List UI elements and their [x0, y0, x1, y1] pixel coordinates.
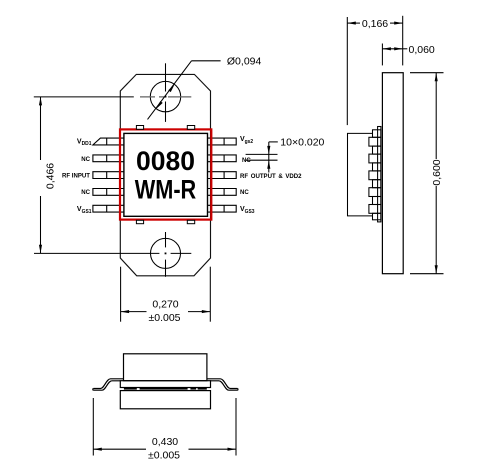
dimension 0,166	[347, 16, 402, 125]
bottom hole horizontal centerline right	[171, 252, 192, 254]
0,600 dim line lower segment	[435, 186, 437, 274]
0,060 dim line	[382, 48, 402, 50]
0,466 top extension line	[34, 96, 134, 98]
lead strip	[378, 127, 381, 222]
lead stub narrow 3	[373, 180, 381, 188]
leader horizontal to text	[269, 141, 278, 143]
lead stub row4 wide	[369, 188, 381, 197]
base rectangle	[120, 391, 210, 409]
10x0.020 down arrow	[267, 146, 270, 155]
0,060 left arrow	[382, 47, 391, 50]
lead stub narrow top	[373, 130, 381, 138]
svg-text:NC: NC	[240, 189, 249, 196]
index tab top-left	[136, 126, 143, 130]
0,466 top arrow	[39, 97, 42, 106]
bottom hole horizontal centerline left	[34, 252, 159, 254]
lead bracket outline	[348, 133, 373, 216]
top hole vertical centerline upper	[165, 63, 167, 91]
dimension 10x0.020	[246, 142, 278, 173]
0,466 bottom arrow	[39, 245, 42, 254]
left pins	[93, 138, 236, 212]
0,166 right extension line	[402, 16, 404, 66]
0,600 bottom arrow	[435, 265, 438, 274]
bottom hole vertical centerline upper	[165, 232, 167, 247]
pin 5 right (VGS3)	[208, 205, 237, 212]
bottom hole center dot	[165, 253, 167, 255]
svg-text:0,166: 0,166	[362, 18, 388, 30]
svg-text:0080: 0080	[136, 146, 195, 176]
bottom hole vertical centerline lower	[165, 260, 167, 277]
lead stub narrow 1	[373, 146, 381, 154]
svg-text:Ø0,094: Ø0,094	[227, 56, 262, 68]
pin 2 left (NC)	[93, 155, 124, 162]
lead stub row1 wide	[369, 137, 381, 146]
0,166 left extension line	[346, 17, 348, 125]
top mounting hole	[150, 81, 180, 111]
0,166 dim line left segment	[347, 22, 360, 24]
index tab bottom-right	[187, 220, 194, 223]
leader horizontal line	[192, 60, 221, 62]
left lead tip cap	[92, 389, 95, 391]
0,060 right arrow	[394, 47, 403, 50]
svg-text:0,430: 0,430	[152, 436, 178, 448]
left gull-wing lead upper line	[94, 379, 124, 389]
index tab top-right	[187, 126, 194, 130]
svg-text:WM-R: WM-R	[135, 176, 197, 206]
0,430 dim line right segment	[189, 448, 237, 450]
pin 4 right (NC)	[208, 189, 237, 196]
pin labels left	[62, 136, 92, 215]
top hole vertical centerline lower	[165, 102, 167, 122]
right gull-wing lead lower line	[211, 381, 238, 390]
0,166 left arrow	[347, 22, 356, 25]
side body rectangle	[382, 73, 403, 274]
0,166 dim line right segment	[390, 22, 403, 24]
lead stub narrow 2	[373, 163, 381, 171]
lid rectangle	[124, 354, 207, 381]
0,430 dim line left segment	[93, 448, 146, 450]
0,466 dimension line lower segment	[40, 196, 42, 253]
diameter arrow upper	[168, 83, 176, 92]
pin 3 left (RF INPUT)	[93, 172, 124, 179]
0,060 dim line tail to text	[403, 48, 408, 50]
pin 1 left (VDD1, chamfered)	[93, 138, 124, 145]
flange rectangle	[120, 381, 210, 388]
svg-text:RF OUTPUT & VDD2: RF OUTPUT & VDD2	[240, 173, 302, 180]
braze seal broken line	[124, 388, 207, 390]
red chip outline	[120, 129, 211, 219]
pin 5 left (VGS1)	[93, 205, 124, 212]
index tab bottom-left	[136, 220, 143, 223]
0,060 left extension line	[381, 44, 383, 66]
svg-text:±0.005: ±0.005	[148, 312, 180, 324]
svg-text:RF INPUT: RF INPUT	[62, 172, 90, 179]
package outline	[120, 74, 210, 275]
lead stub row2 wide	[369, 154, 381, 163]
svg-text:0,600: 0,600	[431, 159, 443, 185]
dimension 0,060	[382, 44, 407, 66]
0,600 top extension line	[410, 72, 444, 74]
0,430 left extension line	[92, 398, 94, 456]
dimension Ø0,094 leader	[148, 61, 221, 120]
0,270 dimension line left segment	[121, 311, 147, 313]
dimension 0,466	[34, 97, 134, 253]
right lead tip cap	[236, 389, 239, 391]
pin 4 left (NC)	[93, 189, 124, 196]
svg-text:0,270: 0,270	[152, 298, 178, 310]
lead stub row5 wide	[369, 205, 381, 214]
svg-text:0,060: 0,060	[409, 44, 435, 56]
svg-text:10×0.020: 10×0.020	[280, 136, 324, 148]
lead stub row3 wide	[369, 171, 381, 180]
svg-text:±0.005: ±0.005	[148, 450, 180, 462]
0,270 dimension line right segment	[188, 311, 210, 313]
leader diagonal line	[148, 61, 192, 120]
diameter arrow lower	[155, 101, 163, 110]
pin 1 right (Vgs2)	[208, 138, 237, 145]
0,166 right arrow	[394, 22, 403, 25]
top hole horizontal centerline (gray dashed)	[140, 96, 191, 98]
0,270 right arrow	[202, 310, 211, 313]
0,466 dimension line upper segment	[40, 97, 42, 160]
pin labels right	[240, 134, 302, 215]
pin2 bottom edge extension	[246, 159, 278, 161]
0,600 top arrow	[435, 73, 438, 82]
dimension 0,430	[93, 398, 236, 456]
lead stub narrow bottom	[373, 213, 381, 220]
0,600 dim line upper segment	[435, 73, 437, 159]
lead stub narrow 4	[373, 197, 381, 205]
pin 2 right (NC)	[208, 155, 237, 162]
pin2 top edge extension	[246, 153, 278, 155]
0,270 left arrow	[121, 310, 130, 313]
0,270 right extension line	[209, 267, 211, 322]
dimension 0,600	[410, 73, 444, 274]
svg-text:0,466: 0,466	[45, 163, 57, 189]
0,430 right extension line	[235, 398, 237, 456]
inner chip square	[124, 133, 208, 216]
left gull-wing lead lower line	[94, 381, 121, 390]
0,270 left extension line	[120, 267, 122, 322]
right gull-wing lead upper line	[207, 379, 237, 389]
pin 3 right (RF OUTPUT & VDD2)	[208, 172, 237, 179]
top hole center dot	[165, 96, 167, 98]
leader vertical line	[268, 142, 270, 173]
svg-text:NC: NC	[81, 189, 90, 196]
0,430 right arrow	[228, 448, 237, 451]
0,430 left arrow	[93, 448, 102, 451]
bottom mounting hole	[151, 238, 181, 268]
svg-text:NC: NC	[81, 156, 90, 163]
10x0.020 up arrow	[267, 160, 270, 169]
0,600 bottom extension line	[410, 273, 444, 275]
dimension 0,270	[121, 267, 211, 322]
